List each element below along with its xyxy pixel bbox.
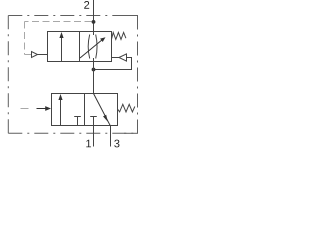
enclosure frame left (dash-dot) [7, 16, 9, 134]
wire pilot to top valve [38, 54, 48, 56]
valve V1 throttle left arc [88, 35, 90, 59]
pilot triangle (top valve, hollow, points right) [32, 52, 38, 58]
enclosure frame top (dash-dot) [8, 15, 138, 17]
check valve triangle (hollow, points left) [119, 54, 127, 61]
check valve bypass line from V1 right port [112, 57, 120, 59]
valve V2 right cell exhaust diagonal [94, 94, 111, 126]
node port 3 label [114, 140, 119, 148]
enclosure frame top right corner patch [124, 15, 138, 17]
enclosure frame bottom right corner patch [124, 132, 138, 134]
valve V2 left cell blocked port T [77, 117, 79, 126]
wire port 3 [110, 126, 112, 147]
wire pilot dashed stub to triangle [25, 54, 32, 56]
node junction dot A (pilot tee on port 2 line) [92, 20, 96, 24]
wire V1 bottom to V2 top [93, 62, 95, 94]
wire pilot dashed horizontal y=22 [25, 21, 92, 23]
node port 2 label [84, 1, 89, 9]
valve V1 throttle right arc [96, 35, 97, 59]
wire bypass to corner [94, 58, 132, 70]
wire port 1 [93, 126, 95, 147]
valve V1 body (2/2 top valve) [48, 32, 112, 62]
valve V2 left cell flow arrow up [60, 97, 62, 126]
node port 1 label [86, 140, 91, 148]
valve V1 left cell flow arrow up [61, 35, 63, 62]
wire pilot dashed into bottom valve [21, 108, 29, 110]
enclosure frame bottom (dash-dot) [8, 132, 138, 134]
spring S1 (top valve, right, upper) [112, 32, 126, 39]
wire port 2 vertical [93, 0, 95, 32]
wire pilot dashed vertical x=24.5 [24, 22, 26, 55]
pilot arrow (bottom valve) [37, 108, 48, 110]
spring S2 (bottom valve, right) [118, 104, 135, 112]
valve V1 cell divider [79, 32, 81, 62]
node junction dot B [92, 68, 96, 72]
valve V1 throttle adjust arrow [80, 38, 104, 58]
valve V2 right cell blocked port T [93, 117, 95, 126]
enclosure frame right (dash-dot) [137, 16, 139, 134]
valve V2 cell divider [84, 94, 86, 126]
valve V1 throttle stubs [93, 32, 95, 36]
valve V2 body (3/2 bottom valve) [52, 94, 118, 126]
